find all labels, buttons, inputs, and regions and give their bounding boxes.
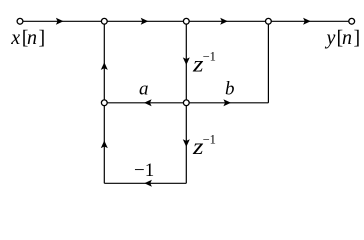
- wire: second delay vertical from node G down to bottom row: [185, 103, 187, 184]
- node C: [183, 18, 189, 24]
- wire: x[n] input to node B (top row): [20, 20, 104, 22]
- svg-text:]: ]: [354, 27, 361, 49]
- svg-text:x: x: [10, 27, 20, 49]
- svg-text:y: y: [325, 27, 336, 49]
- svg-text:a: a: [139, 79, 149, 100]
- arrow right on gain-b wire G-H: [223, 99, 231, 106]
- wire: gain-a branch node G to node F (middle row): [104, 102, 186, 104]
- arrow right on wire B-C: [141, 18, 149, 25]
- node A (input): [17, 18, 23, 24]
- arrow right on output wire D-E: [303, 18, 311, 25]
- svg-text:]: ]: [39, 27, 46, 49]
- node G: [183, 100, 189, 106]
- svg-text:n: n: [342, 27, 352, 49]
- wire: node C to node D (top row): [186, 20, 268, 22]
- label z^-1 upper delay: [192, 50, 216, 77]
- svg-text:−1: −1: [203, 50, 216, 64]
- label a: [139, 79, 149, 100]
- node D: [266, 18, 272, 24]
- label x[n]: [10, 27, 45, 49]
- wire: gain-b branch node G right to corner under D: [186, 102, 268, 104]
- svg-text:n: n: [27, 27, 37, 49]
- wire: node B to node C (top row): [104, 20, 186, 22]
- node E (output): [349, 18, 355, 24]
- node B: [101, 18, 107, 24]
- wire: bottom-left vertical up to node F: [103, 103, 105, 184]
- wire: delay branch vertical from node C down to node G: [185, 21, 187, 103]
- arrow down on second delay wire below G: [183, 139, 190, 147]
- arrow right on input wire: [56, 18, 64, 25]
- label z^-1 lower delay: [192, 133, 216, 159]
- svg-text:−1: −1: [134, 160, 154, 181]
- arrow up on bottom-left wire toward F: [101, 141, 108, 149]
- label b: [225, 79, 235, 100]
- arrow down on delay wire C-G: [183, 57, 190, 65]
- wire: node D to y[n] output (top row): [268, 20, 351, 22]
- arrow left on gain-a wire G-F: [144, 99, 152, 106]
- wire: feedback vertical from node F up to node B: [103, 21, 105, 103]
- node F: [101, 100, 107, 106]
- arrow left on bottom gain -1 wire: [144, 180, 152, 187]
- wire: bottom row horizontal (gain -1 branch): [104, 182, 186, 184]
- label -1: [134, 160, 154, 181]
- wire: gain-b branch corner up to node D: [267, 21, 269, 103]
- svg-text:−1: −1: [203, 133, 216, 147]
- svg-text:b: b: [225, 79, 235, 100]
- arrow right on wire C-D: [220, 18, 228, 25]
- arrow up on feedback wire F-B: [101, 62, 108, 70]
- label y[n]: [325, 27, 361, 49]
